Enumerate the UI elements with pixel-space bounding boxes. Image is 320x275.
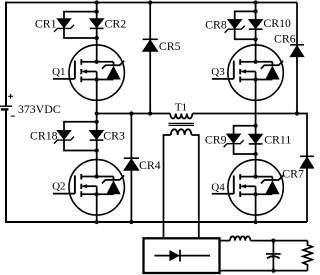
svg-text:CR3: CR3	[103, 128, 125, 142]
svg-text:CR7: CR7	[282, 166, 304, 180]
svg-text:373VDC: 373VDC	[18, 102, 61, 116]
svg-text:Q3: Q3	[211, 66, 225, 78]
svg-text:CR6: CR6	[274, 32, 296, 46]
svg-text:CR8: CR8	[205, 17, 227, 31]
svg-text:CR4: CR4	[139, 158, 161, 172]
svg-text:Q1: Q1	[52, 66, 65, 78]
svg-text:Q2: Q2	[52, 181, 65, 193]
svg-text:CR10: CR10	[263, 16, 291, 30]
svg-text:Q4: Q4	[211, 181, 225, 193]
svg-text:CR1: CR1	[35, 16, 57, 30]
svg-text:CR11: CR11	[264, 132, 291, 146]
svg-text:CR18: CR18	[30, 128, 58, 142]
svg-text:CR9: CR9	[205, 133, 227, 147]
svg-text:T1: T1	[175, 102, 187, 114]
svg-text:CR2: CR2	[105, 16, 127, 30]
svg-text:CR5: CR5	[159, 39, 181, 53]
